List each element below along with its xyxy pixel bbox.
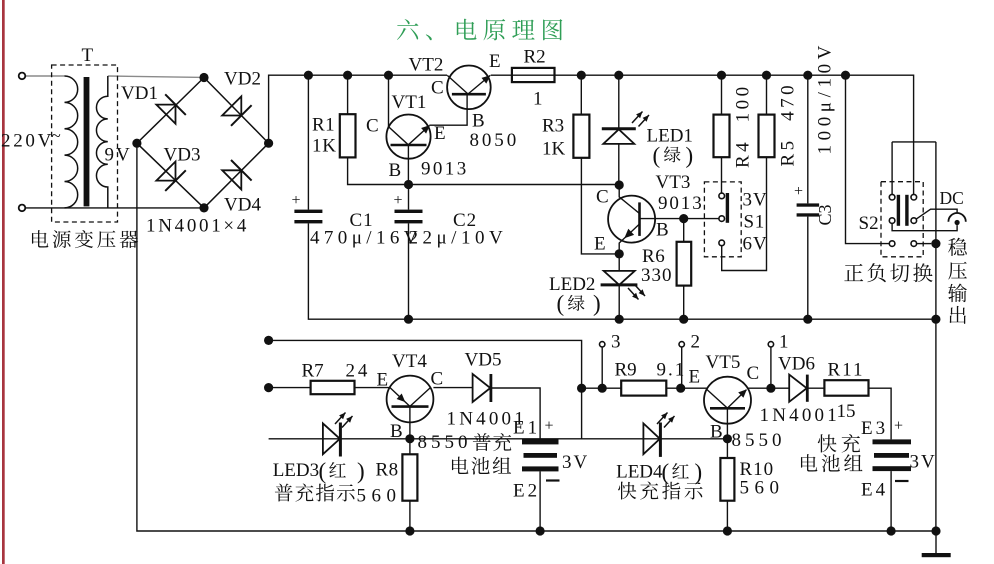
svg-text:+: + xyxy=(292,192,301,209)
svg-text:C: C xyxy=(431,369,444,390)
svg-text:B: B xyxy=(472,111,485,132)
svg-text:S1: S1 xyxy=(744,212,765,233)
svg-text:3V: 3V xyxy=(562,452,589,473)
svg-text:VD5: VD5 xyxy=(465,350,502,371)
svg-text:3V: 3V xyxy=(743,190,768,211)
svg-text:E: E xyxy=(594,234,606,255)
svg-text:VT5: VT5 xyxy=(706,352,741,373)
svg-text:E3: E3 xyxy=(861,418,888,439)
svg-text:24: 24 xyxy=(346,361,371,382)
svg-text:R2: R2 xyxy=(524,47,546,68)
svg-text:VD4: VD4 xyxy=(224,195,261,216)
svg-text:1N4001: 1N4001 xyxy=(760,405,840,426)
svg-text:+: + xyxy=(794,183,803,200)
svg-text:): ) xyxy=(593,291,601,316)
svg-text:C: C xyxy=(747,363,760,384)
svg-text:R4 100: R4 100 xyxy=(733,83,754,168)
svg-text:220V: 220V xyxy=(1,131,54,152)
svg-text:(: ( xyxy=(653,143,661,168)
svg-text:C: C xyxy=(431,78,444,99)
svg-text:R8: R8 xyxy=(376,460,399,481)
svg-text:1K: 1K xyxy=(542,139,566,160)
svg-text:LED3: LED3 xyxy=(273,460,319,481)
svg-text:B: B xyxy=(389,160,402,181)
svg-text:560: 560 xyxy=(357,486,402,507)
svg-text:470μ/16V: 470μ/16V xyxy=(310,228,422,249)
svg-text:8550: 8550 xyxy=(732,430,786,451)
svg-text:2: 2 xyxy=(691,332,701,353)
svg-text:8550: 8550 xyxy=(418,432,472,453)
svg-text:C: C xyxy=(596,187,609,208)
svg-text:R9: R9 xyxy=(615,360,637,381)
svg-text:560: 560 xyxy=(740,478,785,499)
svg-text:R11: R11 xyxy=(828,360,865,381)
svg-text:C3: C3 xyxy=(815,204,835,225)
svg-text:1K: 1K xyxy=(312,136,337,157)
svg-text:): ) xyxy=(686,143,694,168)
svg-text:9.1: 9.1 xyxy=(657,360,687,381)
svg-text:DC: DC xyxy=(940,188,964,208)
svg-text:(: ( xyxy=(557,291,565,316)
svg-text:VT4: VT4 xyxy=(392,351,427,372)
svg-text:): ) xyxy=(357,459,365,484)
svg-text:): ) xyxy=(695,460,703,485)
svg-text:S2: S2 xyxy=(859,213,879,234)
svg-text:VD2: VD2 xyxy=(224,69,261,90)
svg-text:8050: 8050 xyxy=(470,130,520,151)
svg-text:~: ~ xyxy=(52,126,61,145)
svg-text:9013: 9013 xyxy=(658,193,704,214)
svg-text:VT3: VT3 xyxy=(656,172,691,193)
svg-text:3: 3 xyxy=(611,332,621,353)
svg-text:B: B xyxy=(710,422,723,443)
svg-text:R7: R7 xyxy=(302,361,324,382)
svg-text:+: + xyxy=(545,418,554,435)
svg-text:E2: E2 xyxy=(513,481,540,502)
svg-text:VT1: VT1 xyxy=(392,92,427,113)
svg-text:+: + xyxy=(394,192,403,209)
svg-text:VT2: VT2 xyxy=(409,55,444,76)
svg-text:LED4: LED4 xyxy=(616,462,663,483)
svg-text:R3: R3 xyxy=(542,116,564,137)
svg-text:E1: E1 xyxy=(513,418,540,439)
svg-text:R1: R1 xyxy=(312,115,335,136)
svg-text:R6: R6 xyxy=(642,246,665,267)
svg-text:E: E xyxy=(434,123,446,144)
svg-text:C: C xyxy=(366,116,379,137)
svg-text:VD3: VD3 xyxy=(164,145,201,166)
svg-text:E: E xyxy=(489,51,501,72)
svg-text:6V: 6V xyxy=(743,234,768,255)
svg-text:+: + xyxy=(894,418,903,435)
svg-text:15: 15 xyxy=(837,401,856,422)
svg-text:(: ( xyxy=(662,460,670,485)
svg-text:VD1: VD1 xyxy=(121,83,158,104)
svg-text:T: T xyxy=(82,45,94,66)
svg-text:1N4001×4: 1N4001×4 xyxy=(146,216,249,237)
svg-text:E: E xyxy=(377,370,389,391)
svg-text:(: ( xyxy=(319,459,327,484)
svg-text:22μ/10V: 22μ/10V xyxy=(409,228,508,249)
svg-text:1: 1 xyxy=(779,332,789,353)
svg-text:VD6: VD6 xyxy=(778,354,815,375)
svg-text:B: B xyxy=(390,421,403,442)
svg-text:1: 1 xyxy=(533,89,543,110)
svg-text:330: 330 xyxy=(641,265,673,286)
svg-text:E: E xyxy=(689,367,701,388)
svg-text:9013: 9013 xyxy=(421,159,469,180)
svg-text:E4: E4 xyxy=(861,480,888,501)
svg-text:3V: 3V xyxy=(910,452,937,473)
svg-text:9V: 9V xyxy=(105,145,132,166)
svg-text:100μ/10V: 100μ/10V xyxy=(815,41,836,155)
svg-text:B: B xyxy=(656,220,669,241)
svg-text:R5 470: R5 470 xyxy=(778,82,799,167)
